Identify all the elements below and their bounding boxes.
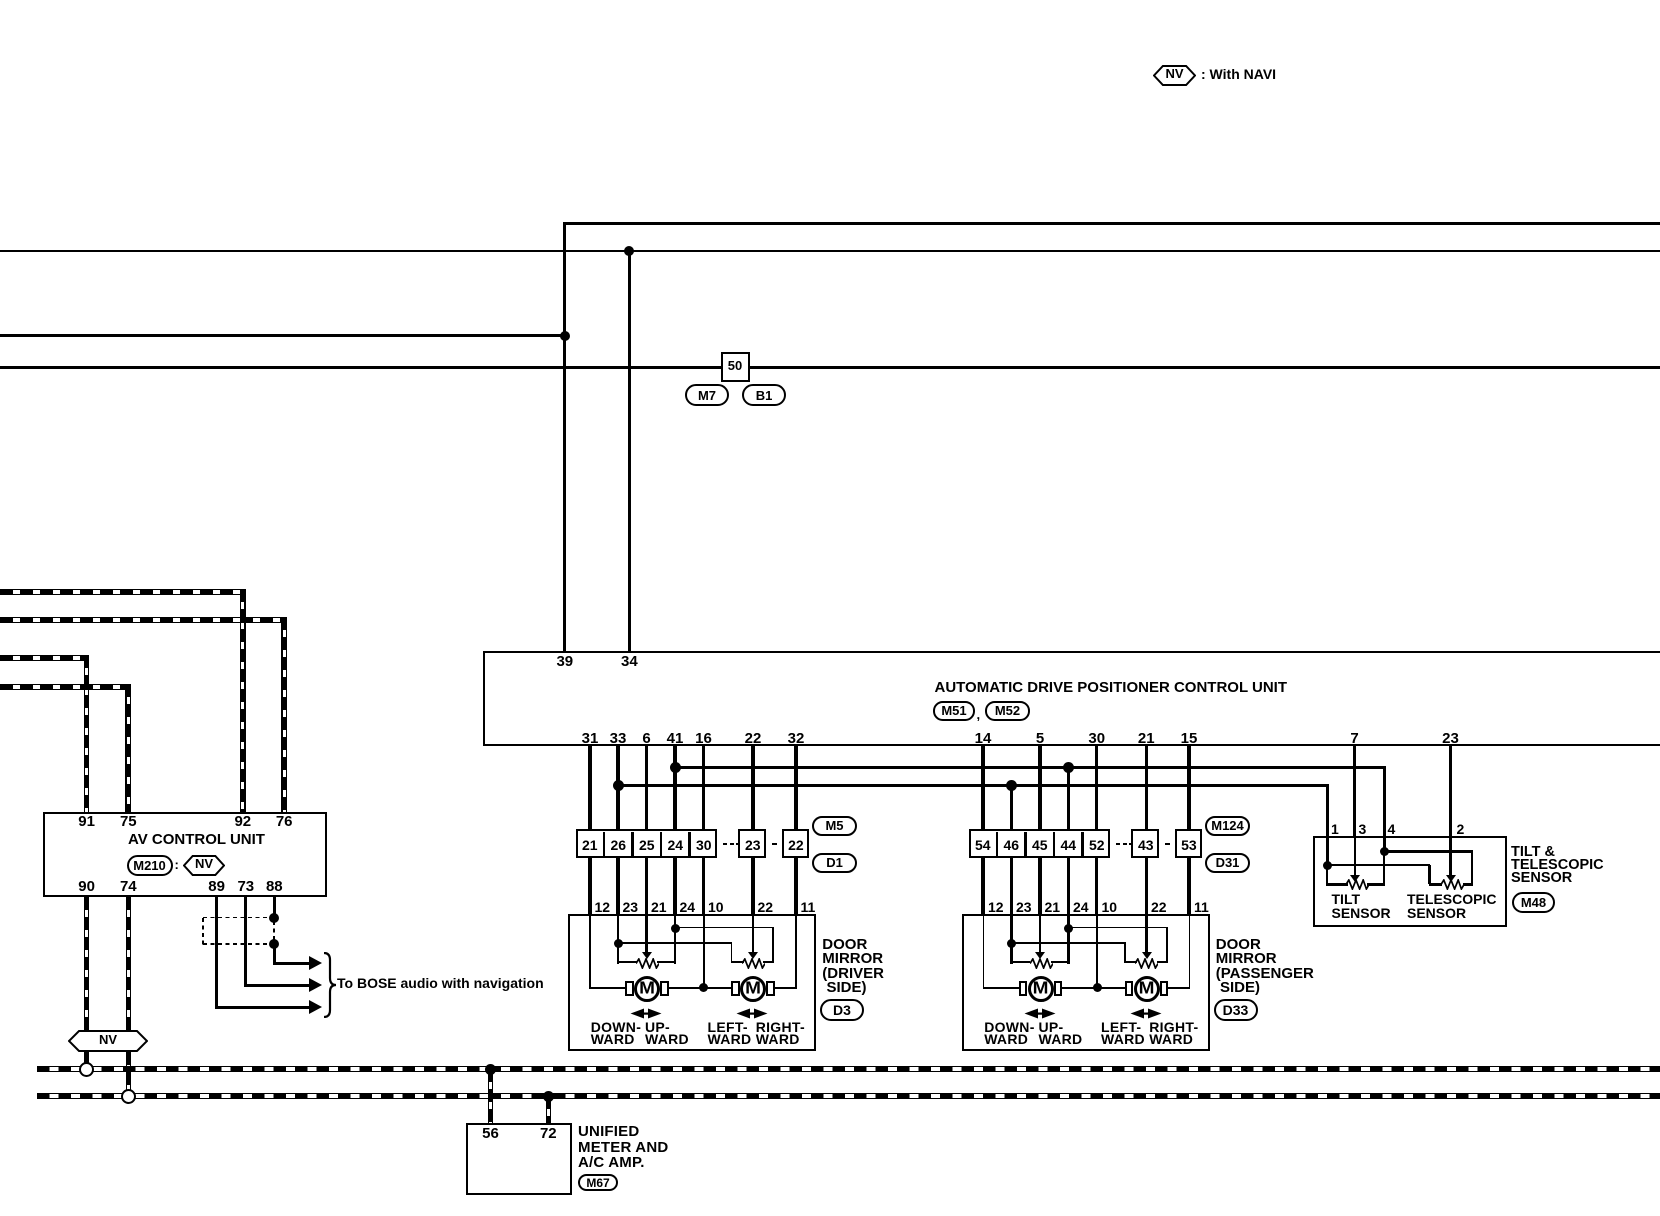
tilt right lead bbox=[1367, 883, 1386, 885]
shielded wire to pin 91 bbox=[0, 655, 89, 661]
AV control unit title bbox=[128, 832, 265, 847]
resistor lead bbox=[1010, 961, 1030, 964]
position sensor resistor up/down bbox=[1030, 958, 1053, 969]
label leftward bbox=[1101, 1020, 1141, 1034]
pin 72 bbox=[540, 1126, 557, 1141]
unified meter box bbox=[466, 1123, 572, 1195]
wire crossover upper bbox=[675, 927, 774, 929]
pin 23 label bbox=[1442, 731, 1459, 746]
left/right arrow bbox=[1130, 1008, 1162, 1019]
fuse label 50 bbox=[728, 359, 742, 372]
sensor pin 1 bbox=[1331, 822, 1339, 836]
resistor lead bbox=[1157, 961, 1168, 964]
label unified meter bbox=[578, 1124, 639, 1139]
telescopic right lead bbox=[1463, 883, 1474, 886]
comma bbox=[977, 708, 981, 721]
open junction pin 74 to bus bbox=[121, 1089, 136, 1104]
junction bbox=[671, 924, 680, 933]
terminal box 23 bbox=[738, 829, 766, 858]
shielded wire drop pin 75 bbox=[125, 684, 131, 812]
wire pin 14 to connector bbox=[981, 746, 984, 831]
wire connector to passenger mirror bbox=[1010, 857, 1013, 917]
pin 88 bbox=[266, 879, 283, 894]
wire connector to driver mirror bbox=[702, 857, 705, 917]
pin 15 label bbox=[1181, 731, 1198, 746]
junction bus to pin 56 bbox=[485, 1064, 496, 1075]
wire connector to passenger mirror bbox=[981, 857, 984, 917]
connector M7 bbox=[685, 384, 729, 406]
wire to pin 39 bbox=[563, 222, 566, 651]
label downward bbox=[984, 1020, 1035, 1034]
mirror pin 24 label bbox=[680, 900, 696, 914]
wire drop to connector 46 bbox=[1010, 785, 1013, 831]
connector M5 bbox=[812, 816, 857, 836]
pin 75 bbox=[120, 814, 137, 829]
junction bbox=[1064, 924, 1073, 933]
motor M2 left/right bbox=[740, 976, 766, 1002]
junction sensor bbox=[1323, 861, 1332, 870]
wire crossover upper drop bbox=[772, 928, 774, 963]
wire motor1-motor2 bbox=[1062, 987, 1126, 989]
connector M210 bbox=[127, 855, 173, 876]
junction bbox=[699, 983, 708, 992]
wire pin 89 right bbox=[215, 1006, 309, 1009]
arrow to BOSE (pin 73) bbox=[309, 978, 322, 992]
mirror pin 12 label bbox=[595, 900, 611, 914]
dash bbox=[772, 843, 777, 846]
wire top feed 4 bbox=[0, 366, 1660, 369]
pin 73 bbox=[237, 879, 254, 894]
connector B1 bbox=[742, 384, 786, 406]
tilt left riser bbox=[1326, 865, 1328, 884]
connector D1 bbox=[812, 853, 857, 873]
wire mirror pin 11 bbox=[795, 916, 797, 989]
motor M up/down terminals bbox=[1019, 981, 1028, 996]
CAN bus line upper bbox=[37, 1066, 1660, 1072]
pin 32 label bbox=[788, 731, 805, 746]
sensor pin 3 bbox=[1359, 822, 1367, 836]
junction bbox=[614, 939, 623, 948]
pin 92 bbox=[234, 814, 251, 829]
wire connector to driver mirror bbox=[616, 857, 619, 917]
junction to connector 44 bbox=[1063, 762, 1074, 773]
position sensor resistor left/right bbox=[1135, 958, 1158, 969]
terminal 52 bbox=[1089, 838, 1105, 852]
tilt sensor resistor bbox=[1346, 879, 1369, 890]
mirror label bbox=[822, 937, 867, 952]
wire connector to passenger mirror bbox=[1095, 857, 1098, 917]
pin 89 bbox=[208, 879, 225, 894]
wire pin 88 right bbox=[273, 962, 309, 965]
divider bbox=[1081, 832, 1084, 857]
motor M left/right terminals bbox=[731, 981, 740, 996]
wiper from pin 22 bbox=[752, 914, 755, 953]
motor M1 up/down bbox=[634, 976, 660, 1002]
connector D33 bbox=[1214, 999, 1258, 1021]
wire pin 7 to sensor pin 3 bbox=[1353, 746, 1356, 838]
motor M2 left/right bbox=[1134, 976, 1160, 1002]
up/down arrow bbox=[1024, 1008, 1056, 1019]
sensor pin 4 bbox=[1388, 822, 1396, 836]
connector M52 bbox=[985, 701, 1030, 721]
legend text bbox=[1201, 67, 1276, 81]
wire crossover upper drop bbox=[1166, 928, 1168, 963]
driver connector group box bbox=[576, 829, 718, 858]
wiper from pin 21 bbox=[645, 914, 648, 953]
wire connector to driver mirror bbox=[794, 857, 797, 917]
wire pin 6 to connector bbox=[645, 746, 648, 831]
wire mirror pin 10 bbox=[703, 916, 705, 989]
wire pin 31 to connector bbox=[588, 746, 591, 831]
wire to motor1 left bbox=[984, 987, 1020, 989]
dash bbox=[730, 843, 734, 846]
wire crossover lower drop bbox=[1124, 943, 1126, 963]
terminal 44 bbox=[1060, 838, 1076, 852]
sensor pin 1 wire bbox=[1326, 838, 1329, 865]
terminal 26 bbox=[610, 838, 626, 852]
pin 7 label bbox=[1350, 731, 1358, 746]
pin 30 label bbox=[1088, 731, 1105, 746]
mirror pin 23 label bbox=[1016, 900, 1032, 914]
resistor lead bbox=[617, 961, 637, 964]
pin 34 bbox=[621, 654, 638, 669]
motor M left/right terminals bbox=[1125, 981, 1134, 996]
wire drop to connector 44 bbox=[1067, 768, 1070, 832]
resistor lead bbox=[1124, 961, 1137, 964]
mirror pin 10 label bbox=[1102, 900, 1118, 914]
connector D3 bbox=[820, 999, 864, 1021]
wire pin 88 down bbox=[273, 897, 276, 918]
fuse 50 box bbox=[721, 352, 750, 382]
up/down arrow bbox=[630, 1008, 662, 1019]
wire drop to sensor pin 4 bbox=[1383, 766, 1386, 838]
wire mirror pin 12 bbox=[983, 916, 985, 989]
terminal 22 bbox=[788, 838, 804, 852]
terminal 25 bbox=[639, 838, 655, 852]
pin 21 label bbox=[1138, 731, 1155, 746]
divider bbox=[996, 832, 999, 857]
label tilt sensor bbox=[1332, 892, 1361, 906]
passenger mirror box bbox=[962, 914, 1210, 1051]
dash bbox=[723, 843, 727, 846]
mirror pin 21 label bbox=[651, 900, 667, 914]
sensor box bbox=[1313, 836, 1507, 927]
mirror pin 22 label bbox=[758, 900, 774, 914]
wire dot4 to telescopic right bbox=[1384, 850, 1473, 853]
pin 74 bbox=[120, 879, 137, 894]
mirror pin 22 label bbox=[1151, 900, 1167, 914]
resistor lead bbox=[731, 961, 744, 964]
wire pin 41 net to sensor pin 4 bbox=[675, 766, 1386, 769]
wire connector to driver mirror bbox=[588, 857, 591, 917]
wiper from pin 22 bbox=[1145, 914, 1148, 953]
shielded wire to pin 76 bbox=[0, 617, 287, 623]
divider bbox=[1053, 832, 1056, 857]
wire pin 5 to connector bbox=[1038, 746, 1041, 831]
pin 41 label bbox=[667, 731, 684, 746]
AV control unit box bbox=[43, 812, 327, 897]
pin 33 label bbox=[610, 731, 627, 746]
label downward bbox=[591, 1020, 642, 1034]
mirror pin 11 label bbox=[1194, 900, 1209, 914]
mirror pin 21 label bbox=[1045, 900, 1061, 914]
control unit title bbox=[935, 680, 1288, 695]
brace bbox=[322, 952, 338, 1018]
connector D31 bbox=[1205, 853, 1250, 873]
terminal 23 bbox=[745, 838, 761, 852]
left/right arrow bbox=[736, 1008, 768, 1019]
shielded wire drop pin 92 bbox=[240, 589, 246, 812]
connector M124 bbox=[1205, 816, 1250, 836]
sensor pin 4 wire inside bbox=[1383, 838, 1386, 852]
junction pin 88 lower bbox=[269, 939, 279, 949]
dashed box bottom bbox=[203, 943, 268, 945]
wire connector to driver mirror bbox=[645, 857, 648, 917]
divider bbox=[688, 832, 691, 857]
resistor lead bbox=[1051, 961, 1070, 964]
terminal 54 bbox=[975, 838, 991, 852]
arrow to BOSE (pin 89) bbox=[309, 1000, 322, 1014]
passenger connector group box bbox=[969, 829, 1111, 858]
wire dot1 to telescopic left bbox=[1327, 864, 1430, 866]
mirror pin 23 label bbox=[623, 900, 639, 914]
wire pin 89 down bbox=[215, 897, 218, 1007]
wire crossover upper bbox=[1069, 927, 1168, 929]
wire pin 88 down 2 bbox=[273, 947, 276, 963]
wire pin 41 to connector bbox=[673, 746, 676, 831]
divider bbox=[660, 832, 663, 857]
wire motor1-motor2 bbox=[668, 987, 732, 989]
motor M1 up/down bbox=[1028, 976, 1054, 1002]
label upward bbox=[645, 1020, 670, 1034]
terminal 46 bbox=[1003, 838, 1019, 852]
shielded wire to pin 75 bbox=[0, 684, 131, 690]
driver mirror box bbox=[568, 914, 816, 1051]
position sensor resistor left/right bbox=[742, 958, 765, 969]
wire top feed 1 bbox=[563, 222, 1660, 225]
wire mirror pin 24 bbox=[674, 914, 677, 964]
junction pin 88 upper bbox=[269, 913, 279, 923]
wire pin 23 to sensor pin 2 wiper bbox=[1449, 746, 1452, 874]
pin 31 label bbox=[582, 731, 599, 746]
junction bbox=[1093, 983, 1102, 992]
NV hexagon legend symbol bbox=[1153, 65, 1196, 86]
wire pin 73 down bbox=[244, 897, 247, 985]
wire top feed 3 bbox=[0, 334, 566, 337]
dashed twist link bbox=[273, 921, 275, 940]
wire crossover lower bbox=[1012, 942, 1126, 944]
wire top feed 2 bbox=[0, 250, 1660, 253]
dashed box left bbox=[202, 918, 204, 945]
wire connector to passenger mirror bbox=[1038, 857, 1041, 917]
wire pin 21 to connector bbox=[1145, 746, 1148, 831]
tilt right riser bbox=[1383, 852, 1385, 884]
telescopic wiper arrow bbox=[1449, 838, 1452, 875]
terminal box 43 bbox=[1131, 829, 1159, 858]
junction pin 41 net bbox=[670, 762, 681, 773]
divider bbox=[631, 832, 634, 857]
shielded wire drop pin 76 bbox=[281, 617, 287, 812]
pin 76 bbox=[276, 814, 293, 829]
wire to motor1 left bbox=[590, 987, 626, 989]
shielded wire to pin 56 bbox=[488, 1069, 494, 1123]
label leftward bbox=[708, 1020, 748, 1034]
telescopic right riser bbox=[1471, 852, 1474, 884]
pin 14 label bbox=[975, 731, 992, 746]
resistor lead bbox=[763, 961, 774, 964]
wire pin 33 net to sensor pin 1 bbox=[618, 784, 1329, 787]
label tilt & telescopic sensor bbox=[1511, 845, 1555, 860]
wire pin 73 right bbox=[244, 984, 309, 987]
resistor lead bbox=[657, 961, 676, 964]
terminal box 22 bbox=[782, 829, 810, 858]
pin 6 label bbox=[642, 731, 650, 746]
terminal 30 bbox=[696, 838, 712, 852]
stub pin 74 to circle bbox=[126, 1052, 132, 1090]
wire pin 16 to connector bbox=[702, 746, 705, 831]
mirror pin 24 label bbox=[1073, 900, 1089, 914]
shielded wire to pin 92 bbox=[0, 589, 246, 595]
wire pin 33 to connector bbox=[616, 746, 619, 831]
NV symbol bbox=[183, 855, 225, 876]
tilt left lead bbox=[1326, 883, 1348, 885]
junction to connector 46 bbox=[1006, 780, 1017, 791]
label telescopic sensor bbox=[1407, 892, 1496, 906]
pin 16 label bbox=[695, 731, 712, 746]
junction on feed 3 bbox=[560, 331, 570, 341]
junction bus to pin 72 bbox=[543, 1091, 554, 1102]
pin 22 label bbox=[745, 731, 762, 746]
pin 90 bbox=[78, 879, 95, 894]
tilt wiper arrow bbox=[1354, 871, 1356, 875]
junction bbox=[1007, 939, 1016, 948]
arrow to BOSE (pin 88) bbox=[309, 956, 322, 970]
wire crossover lower bbox=[618, 942, 732, 944]
wire connector to passenger mirror bbox=[1067, 857, 1070, 917]
stub pin 90 to circle bbox=[84, 1052, 90, 1063]
wire drop to sensor pin 1 bbox=[1326, 784, 1329, 839]
telescopic left lead bbox=[1429, 883, 1442, 885]
mirror label bbox=[1216, 937, 1261, 952]
dash bbox=[1116, 843, 1120, 846]
wire pin 30 to connector bbox=[1095, 746, 1098, 831]
CAN bus line lower bbox=[37, 1093, 1660, 1099]
NV symbol bottom bbox=[68, 1030, 148, 1052]
sensor pin 2 bbox=[1457, 822, 1465, 836]
label upward bbox=[1039, 1020, 1064, 1034]
terminal box 53 bbox=[1175, 829, 1203, 858]
shielded wire drop pin 91 bbox=[84, 655, 90, 812]
position sensor resistor up/down bbox=[636, 958, 659, 969]
wire mirror pin 10 bbox=[1096, 916, 1098, 989]
shielded wire to pin 72 bbox=[546, 1096, 552, 1123]
connector M51 bbox=[933, 701, 975, 721]
wire mirror pin 23 bbox=[617, 914, 620, 964]
control unit box M51/M52 bbox=[483, 651, 1660, 746]
telescopic left riser bbox=[1428, 865, 1430, 884]
mirror pin 12 label bbox=[988, 900, 1004, 914]
wire crossover lower drop bbox=[731, 943, 733, 963]
dash bbox=[1165, 843, 1170, 846]
junction pin 33 net bbox=[613, 780, 624, 791]
wire motor2 right bbox=[774, 987, 797, 989]
shielded wire pin 90 down bbox=[84, 897, 90, 1031]
pin 91 bbox=[78, 814, 95, 829]
pin 56 bbox=[482, 1126, 499, 1141]
wire pin 15 to connector bbox=[1187, 746, 1190, 831]
dash bbox=[1123, 843, 1127, 846]
connector M48 bbox=[1512, 892, 1555, 913]
label rightward bbox=[756, 1020, 805, 1034]
junction on feed 2 bbox=[624, 246, 634, 256]
tilt wiper wire bbox=[1354, 838, 1356, 875]
terminal 21 bbox=[582, 838, 598, 852]
wire connector to driver mirror bbox=[673, 857, 676, 917]
label rightward bbox=[1149, 1020, 1198, 1034]
wire to pin 34 bbox=[628, 251, 631, 651]
divider bbox=[1024, 832, 1027, 857]
dashed box top bbox=[203, 917, 268, 919]
label to BOSE audio bbox=[337, 976, 544, 990]
terminal 45 bbox=[1032, 838, 1048, 852]
open junction pin 90 to bus bbox=[79, 1062, 94, 1077]
pin 5 label bbox=[1036, 731, 1044, 746]
dash bbox=[1129, 843, 1133, 846]
wire connector to driver mirror bbox=[751, 857, 754, 917]
terminal 53 bbox=[1181, 838, 1197, 852]
motor M up/down terminals bbox=[625, 981, 634, 996]
wiper from pin 21 bbox=[1039, 914, 1042, 953]
terminal 24 bbox=[667, 838, 683, 852]
wire pin 22 to connector bbox=[751, 746, 754, 831]
mirror pin 10 label bbox=[708, 900, 724, 914]
wire connector to passenger mirror bbox=[1187, 857, 1190, 917]
terminal 43 bbox=[1138, 838, 1154, 852]
mirror pin 11 label bbox=[801, 900, 816, 914]
dash bbox=[736, 843, 740, 846]
pin 39 bbox=[556, 654, 573, 669]
wire connector to passenger mirror bbox=[1145, 857, 1148, 917]
wire motor2 right bbox=[1168, 987, 1191, 989]
divider bbox=[603, 832, 606, 857]
wire mirror pin 23 bbox=[1010, 914, 1013, 964]
connector M67 bbox=[578, 1174, 618, 1191]
junction sensor bbox=[1380, 847, 1389, 856]
wire pin 32 to connector bbox=[794, 746, 797, 831]
shielded wire pin 74 down bbox=[126, 897, 132, 1090]
wire mirror pin 12 bbox=[589, 916, 591, 989]
telescopic sensor resistor bbox=[1441, 879, 1464, 890]
wire mirror pin 24 bbox=[1067, 914, 1070, 964]
wire mirror pin 11 bbox=[1189, 916, 1191, 989]
